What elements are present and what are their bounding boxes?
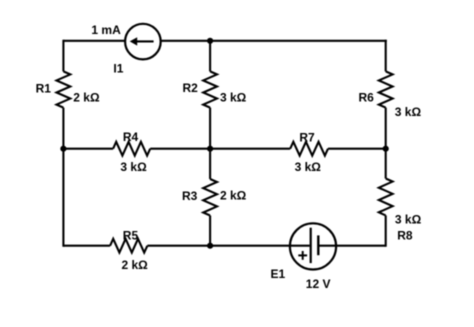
svg-text:R2: R2 — [183, 81, 199, 95]
svg-text:R6: R6 — [359, 91, 375, 105]
svg-text:I1: I1 — [113, 62, 123, 76]
resistor R4 — [113, 142, 150, 156]
resistor R2 — [203, 71, 217, 107]
resistor R6 — [379, 71, 393, 107]
wire left rail upper segment — [62, 40, 64, 72]
node junction middle row right — [383, 146, 389, 152]
battery E1 — [290, 223, 336, 269]
resistor R3 — [203, 179, 217, 216]
svg-text:R3: R3 — [182, 189, 198, 203]
svg-text:3 kΩ: 3 kΩ — [395, 105, 422, 119]
wire middle rail segment bottom — [209, 216, 211, 246]
wire bottom row right segment — [318, 245, 385, 247]
current source I1 — [125, 24, 161, 60]
svg-text:R5: R5 — [123, 228, 139, 242]
node junction middle row center — [207, 146, 213, 152]
svg-text:12 V: 12 V — [306, 277, 331, 291]
node junction bottom middle — [207, 243, 213, 249]
svg-text:R7: R7 — [299, 130, 315, 144]
wire middle rail segment top — [209, 41, 211, 72]
node junction top middle — [207, 38, 213, 44]
svg-text:E1: E1 — [271, 267, 286, 281]
wire middle row center segment — [150, 148, 290, 150]
wire middle rail segment mid — [209, 108, 211, 179]
wire bottom row center segment — [147, 245, 309, 247]
resistor R7 — [290, 142, 328, 156]
wire right rail mid segment — [385, 108, 387, 179]
wire middle row right segment — [328, 148, 386, 150]
resistor R1 — [57, 71, 71, 107]
svg-text:3 kΩ: 3 kΩ — [295, 160, 322, 174]
svg-text:R1: R1 — [36, 81, 52, 95]
wire right rail bottom segment — [385, 215, 387, 246]
resistor R8 — [379, 179, 393, 216]
wire top row left segment — [63, 40, 125, 42]
node junction middle row left — [60, 146, 66, 152]
svg-text:R4: R4 — [123, 130, 139, 144]
wire middle row left segment — [63, 148, 113, 150]
svg-text:2 kΩ: 2 kΩ — [122, 258, 149, 272]
wire left rail lower segment — [62, 108, 64, 247]
wire bottom row left segment — [63, 245, 110, 247]
resistor R5 — [110, 239, 147, 253]
svg-text:2 kΩ: 2 kΩ — [220, 189, 247, 203]
svg-text:3 kΩ: 3 kΩ — [220, 90, 247, 104]
svg-text:R8: R8 — [397, 228, 413, 242]
wire right rail upper segment — [385, 40, 387, 72]
svg-text:3 kΩ: 3 kΩ — [395, 213, 422, 227]
wire top row right segment — [161, 40, 387, 42]
svg-text:3 kΩ: 3 kΩ — [120, 160, 147, 174]
svg-text:2 kΩ: 2 kΩ — [73, 90, 100, 104]
svg-text:1 mA: 1 mA — [91, 23, 121, 37]
